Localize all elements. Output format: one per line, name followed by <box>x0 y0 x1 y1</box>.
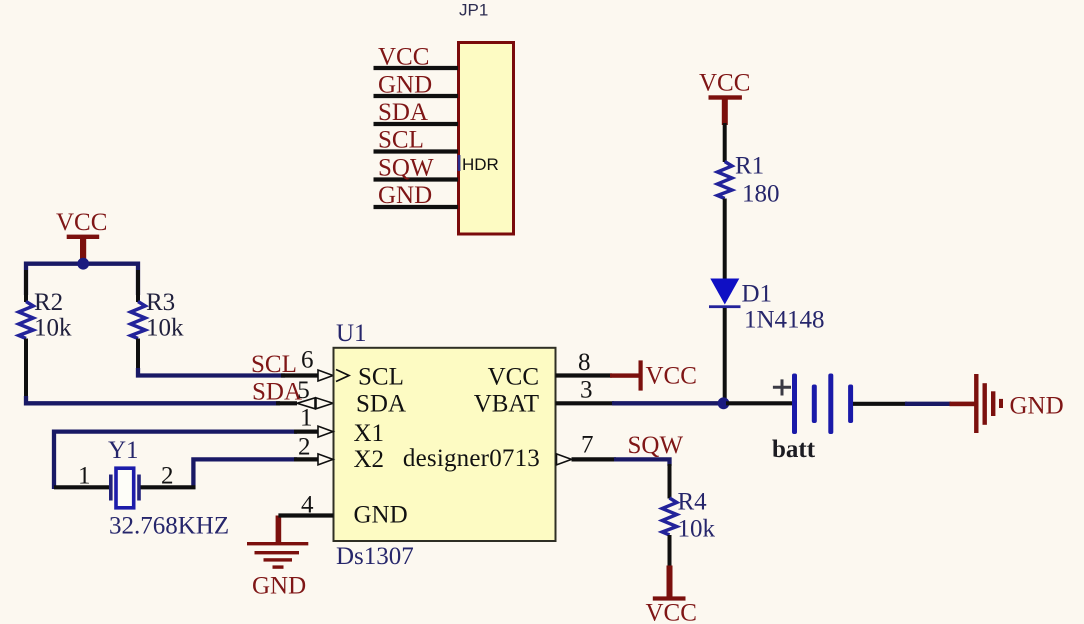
wire SDA black stub <box>276 401 297 405</box>
wire battery to GND <box>905 402 951 406</box>
power port VCC (bottom) <box>646 566 697 624</box>
svg-text:10k: 10k <box>34 315 72 342</box>
R4 top pin <box>668 464 672 499</box>
wire SCL net (R3 to U1) <box>138 368 285 376</box>
battery plate 3 long <box>828 374 833 435</box>
D1 cathode bar <box>709 305 741 308</box>
svg-text:D1: D1 <box>742 280 773 307</box>
power port VCC (top right) <box>699 69 750 125</box>
svg-text:SDA: SDA <box>378 99 428 126</box>
wire SDA net (R2 to U1) <box>26 396 280 403</box>
crystal Y1 <box>54 437 229 539</box>
R4 zigzag body <box>662 498 677 535</box>
JP1 pin 4 wire <box>374 149 459 153</box>
svg-text:VCC: VCC <box>699 69 750 96</box>
Y1 pin 1 wire <box>54 485 109 489</box>
R1 top pin <box>723 123 727 162</box>
battery right pin <box>853 402 907 406</box>
U1 pin 2 wire (X2) <box>193 459 297 489</box>
resistor R1 <box>717 123 779 279</box>
VCC bar <box>709 95 742 99</box>
power port VCC (right of pin 8) <box>610 360 697 390</box>
svg-text:8: 8 <box>578 349 591 376</box>
pin arrow X2 <box>318 454 333 465</box>
U1 pin 7 arrow (SQW output) <box>557 454 572 465</box>
svg-text:batt: batt <box>772 436 816 463</box>
U1 pin 1 wire (X1) <box>54 432 297 489</box>
svg-text:U1: U1 <box>336 320 367 347</box>
D1 bottom pin <box>723 308 727 400</box>
svg-text:R3: R3 <box>146 289 175 316</box>
svg-text:VCC: VCC <box>56 209 107 236</box>
resistor R3 <box>131 270 184 370</box>
VCC bar <box>653 596 686 600</box>
battery plate 1 long <box>792 374 797 435</box>
Y1 right plate <box>137 475 141 501</box>
power port VCC (top left) <box>56 209 107 264</box>
VCC stem <box>610 373 639 377</box>
svg-text:GND: GND <box>354 502 408 529</box>
svg-text:R1: R1 <box>735 152 764 179</box>
JP1 pin 2 wire <box>374 94 459 98</box>
VCC stem <box>722 99 728 125</box>
power port GND (right) <box>950 374 1064 433</box>
svg-text:180: 180 <box>742 181 780 208</box>
svg-text:SCL: SCL <box>358 363 404 390</box>
R2 top pin <box>24 270 28 302</box>
R3 zigzag body <box>131 302 146 339</box>
svg-text:4: 4 <box>301 492 314 519</box>
VCC bar <box>639 360 643 390</box>
svg-text:1: 1 <box>78 463 91 490</box>
svg-text:GND: GND <box>1010 393 1064 420</box>
svg-text:6: 6 <box>301 347 314 374</box>
JP1 pin 6 wire <box>374 205 459 209</box>
svg-text:JP1: JP1 <box>459 1 488 20</box>
svg-text:VCC: VCC <box>646 600 697 624</box>
svg-text:Y1: Y1 <box>108 437 139 464</box>
svg-text:7: 7 <box>581 431 594 458</box>
GND bar 1 <box>247 542 308 545</box>
svg-text:X2: X2 <box>354 446 385 473</box>
U1 pin 1 black stub <box>294 430 319 434</box>
GND bar 4 <box>273 565 284 568</box>
Y1 body <box>116 468 134 508</box>
resistor R4 <box>662 464 715 567</box>
resistor R2 <box>19 270 72 398</box>
R4 bottom pin <box>668 535 672 567</box>
GND bar 2 <box>255 551 300 554</box>
svg-text:SCL: SCL <box>251 351 297 378</box>
R2 zigzag body <box>19 302 34 339</box>
U1 pin 7 wire <box>572 457 617 461</box>
IC U1 DS1307 <box>334 320 556 570</box>
pin arrow SDA bidirectional <box>297 398 315 409</box>
U1 pin 4 wire (GND) <box>278 513 333 517</box>
R2 bottom pin <box>24 339 28 399</box>
svg-text:VCC: VCC <box>378 43 429 70</box>
VCC bar <box>67 235 100 239</box>
diode D1 1N4148 <box>709 279 825 401</box>
wire VCC rail to R2/R3 tops <box>26 264 138 295</box>
JP1 pin 3 wire <box>374 122 459 126</box>
svg-text:Ds1307: Ds1307 <box>336 543 414 570</box>
svg-text:VCC: VCC <box>488 363 539 390</box>
svg-text:GND: GND <box>252 572 306 599</box>
junction dot VBAT node <box>718 397 730 409</box>
battery batt <box>726 374 907 464</box>
svg-text:1N4148: 1N4148 <box>744 306 825 333</box>
SCL clock chevron <box>336 370 349 382</box>
svg-text:GND: GND <box>378 182 432 209</box>
wire SQW net to R4 <box>614 459 670 466</box>
svg-text:HDR: HDR <box>462 155 499 174</box>
svg-text:SQW: SQW <box>628 432 684 459</box>
JP1 body <box>459 43 514 235</box>
U1 body <box>334 348 556 541</box>
Y1 pin 2 wire <box>141 485 196 489</box>
GND bar 3 <box>264 558 293 561</box>
battery plate 2 short <box>812 385 817 424</box>
svg-text:SDA: SDA <box>252 378 302 405</box>
svg-text:10k: 10k <box>146 315 184 342</box>
GND symbol (below U1) <box>247 516 308 600</box>
svg-text:2: 2 <box>161 463 174 490</box>
svg-text:GND: GND <box>378 71 432 98</box>
U1 pin 3 wire (VBAT) black stub <box>556 401 615 405</box>
R3 bottom pin <box>136 339 140 371</box>
svg-text:10k: 10k <box>678 516 716 543</box>
GND bar 3 <box>991 391 995 416</box>
U1 pin 2 black stub <box>294 457 319 461</box>
svg-text:R2: R2 <box>34 289 63 316</box>
wire SCL black stub <box>281 373 319 377</box>
GND bar 2 <box>983 383 987 425</box>
VCC stem <box>667 566 673 598</box>
connector JP1 <box>374 1 514 235</box>
battery left pin <box>726 401 792 405</box>
svg-text:VBAT: VBAT <box>474 390 539 417</box>
JP1 pin 5 wire <box>374 177 459 181</box>
R1 bottom pin <box>723 199 727 280</box>
GND stem <box>950 402 975 407</box>
svg-text:SDA: SDA <box>356 390 406 417</box>
VCC stem <box>80 238 86 264</box>
svg-text:2: 2 <box>298 433 311 460</box>
JP1 pin 1 wire <box>374 66 459 70</box>
R3 top pin <box>136 270 140 302</box>
battery plus sign <box>773 379 791 395</box>
wire VBAT net to battery <box>612 401 725 405</box>
R1 zigzag body <box>717 162 732 199</box>
Y1 left plate <box>109 475 113 501</box>
junction dot at VCC <box>77 258 89 270</box>
battery plate 4 short <box>848 385 853 424</box>
svg-text:SCL: SCL <box>378 126 424 153</box>
U1 pin 8 wire (VCC) <box>556 373 613 377</box>
svg-text:R4: R4 <box>678 489 708 516</box>
svg-text:1: 1 <box>300 405 313 432</box>
svg-text:designer0713: designer0713 <box>403 445 540 472</box>
pin arrow X1 <box>318 426 333 437</box>
svg-text:X1: X1 <box>354 420 385 447</box>
svg-text:SQW: SQW <box>378 154 434 181</box>
GND stem <box>276 516 282 545</box>
svg-text:32.768KHZ: 32.768KHZ <box>109 512 229 539</box>
GND bar 4 <box>999 399 1003 408</box>
D1 triangle <box>710 279 739 305</box>
JP1 HDR pin tick <box>458 155 461 171</box>
svg-text:VCC: VCC <box>646 362 697 389</box>
svg-text:3: 3 <box>580 377 593 404</box>
GND bar 1 <box>974 374 978 433</box>
pin arrow SCL <box>318 370 333 381</box>
